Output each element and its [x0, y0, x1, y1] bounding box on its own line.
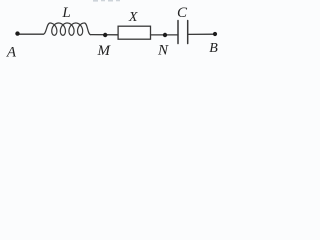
svg-text:M: M: [97, 43, 112, 59]
svg-text:X: X: [128, 10, 138, 25]
svg-text:B: B: [209, 41, 218, 56]
svg-text:C: C: [177, 5, 188, 21]
svg-text:N: N: [157, 43, 169, 59]
svg-text:L: L: [61, 5, 70, 21]
svg-text:A: A: [6, 44, 17, 60]
